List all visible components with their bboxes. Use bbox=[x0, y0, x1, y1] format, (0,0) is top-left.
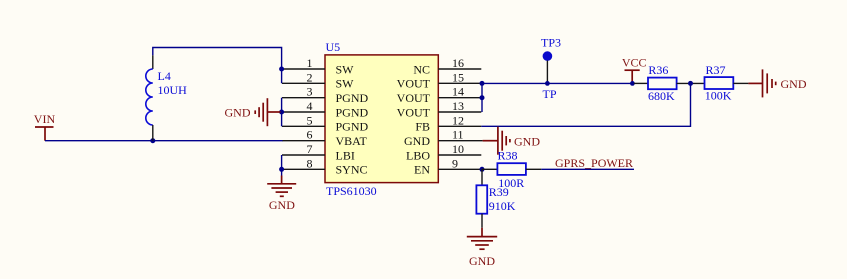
pin 16 NC bbox=[413, 56, 481, 76]
svg-text:VOUT: VOUT bbox=[397, 105, 431, 119]
svg-text:GND: GND bbox=[469, 254, 495, 268]
junction at VCC bbox=[630, 81, 635, 86]
svg-text:LBI: LBI bbox=[336, 148, 355, 162]
svg-text:PGND: PGND bbox=[336, 105, 369, 119]
svg-text:U5: U5 bbox=[326, 40, 341, 54]
svg-text:GND: GND bbox=[781, 77, 807, 91]
wire pins 7-8 to ground bbox=[281, 155, 283, 176]
junction at pin 1 bbox=[279, 67, 284, 72]
svg-text:15: 15 bbox=[452, 70, 464, 84]
svg-text:EN: EN bbox=[414, 163, 430, 177]
svg-text:NC: NC bbox=[413, 62, 430, 76]
svg-text:GND: GND bbox=[225, 106, 251, 120]
power port VCC bbox=[622, 56, 647, 84]
wire VOUT bus pins 13-15 bbox=[481, 83, 483, 112]
wire pins 3-5 PGND bus bbox=[281, 98, 283, 127]
pin 6 VBAT bbox=[282, 128, 368, 148]
svg-text:7: 7 bbox=[307, 142, 313, 156]
junction at pin 8 bbox=[279, 167, 284, 172]
pin 12 FB bbox=[415, 113, 481, 133]
pin 10 LBO bbox=[406, 142, 481, 162]
svg-text:1: 1 bbox=[307, 56, 313, 70]
svg-text:2: 2 bbox=[307, 70, 313, 84]
svg-text:680K: 680K bbox=[648, 89, 675, 103]
resistor R38 bbox=[482, 149, 541, 190]
svg-text:GND: GND bbox=[514, 135, 540, 149]
svg-text:100K: 100K bbox=[705, 89, 732, 103]
svg-text:4: 4 bbox=[307, 99, 313, 113]
svg-text:R39: R39 bbox=[489, 185, 509, 199]
svg-text:13: 13 bbox=[452, 99, 464, 113]
pin 14 VOUT bbox=[397, 85, 482, 105]
svg-text:11: 11 bbox=[452, 128, 464, 142]
svg-text:8: 8 bbox=[307, 156, 313, 170]
svg-text:R36: R36 bbox=[648, 63, 668, 77]
resistor R37 bbox=[705, 63, 749, 103]
wire R38 to GPRS_POWER net bbox=[541, 168, 634, 170]
junction between R36 and R37 bbox=[688, 81, 693, 86]
junction at pin 9 EN bbox=[480, 167, 485, 172]
svg-text:3: 3 bbox=[307, 85, 313, 99]
pin 9 EN bbox=[414, 156, 481, 176]
ground symbol below R39 bbox=[467, 228, 497, 268]
pin 2 SW bbox=[282, 70, 354, 90]
junction at pin 15 bbox=[480, 81, 485, 86]
svg-text:VOUT: VOUT bbox=[397, 91, 431, 105]
svg-text:910K: 910K bbox=[489, 199, 516, 213]
svg-text:PGND: PGND bbox=[336, 91, 369, 105]
pin 3 PGND bbox=[282, 85, 369, 105]
svg-text:TP: TP bbox=[543, 87, 557, 101]
svg-text:9: 9 bbox=[452, 156, 458, 170]
pin 4 PGND bbox=[282, 99, 369, 119]
wire FB loop (pin 12 to R36/R37 junction) bbox=[481, 83, 690, 126]
pin 13 VOUT bbox=[397, 99, 482, 119]
svg-text:VBAT: VBAT bbox=[336, 134, 368, 148]
pin 7 LBI bbox=[282, 142, 355, 162]
svg-text:GND: GND bbox=[404, 134, 430, 148]
resistor R39 bbox=[476, 169, 515, 228]
power port VIN bbox=[34, 112, 56, 141]
ground symbol right of R37 bbox=[748, 69, 806, 97]
junction at TP3 bbox=[545, 81, 550, 86]
svg-text:GND: GND bbox=[269, 198, 295, 212]
svg-text:R37: R37 bbox=[706, 63, 726, 77]
ground symbol below pin 8 bbox=[267, 176, 296, 213]
svg-text:VOUT: VOUT bbox=[397, 77, 431, 91]
svg-text:VIN: VIN bbox=[34, 112, 56, 126]
test point TP3 bbox=[541, 35, 561, 101]
svg-text:SYNC: SYNC bbox=[336, 163, 368, 177]
svg-text:PGND: PGND bbox=[336, 120, 369, 134]
svg-text:R38: R38 bbox=[498, 149, 518, 163]
svg-text:14: 14 bbox=[452, 85, 464, 99]
svg-text:L4: L4 bbox=[158, 69, 171, 83]
wire VIN to pin 6 VBAT bbox=[45, 140, 283, 142]
pin 11 GND bbox=[404, 128, 483, 148]
ground symbol at PGND pins bbox=[225, 98, 281, 126]
inductor L4 bbox=[146, 55, 187, 141]
svg-text:16: 16 bbox=[452, 56, 464, 70]
wire VOUT rail (pin 15) to R36 bbox=[482, 82, 634, 84]
svg-text:6: 6 bbox=[307, 128, 313, 142]
svg-text:SW: SW bbox=[336, 77, 355, 91]
wire L4 top to pins 1-2 bbox=[153, 48, 282, 84]
svg-text:TP3: TP3 bbox=[541, 35, 561, 49]
svg-text:10UH: 10UH bbox=[158, 83, 188, 97]
resistor R36 bbox=[634, 63, 705, 103]
svg-text:SW: SW bbox=[336, 62, 355, 76]
svg-text:5: 5 bbox=[307, 113, 313, 127]
svg-text:TPS61030: TPS61030 bbox=[326, 184, 377, 198]
svg-text:LBO: LBO bbox=[406, 148, 430, 162]
svg-text:VCC: VCC bbox=[622, 56, 647, 70]
ground symbol at pin 11 GND bbox=[483, 127, 541, 155]
junction at pin 4 bbox=[279, 110, 284, 115]
svg-text:12: 12 bbox=[452, 113, 464, 127]
junction at pin 14 bbox=[480, 95, 485, 100]
pin 5 PGND bbox=[282, 113, 369, 133]
pin 8 SYNC bbox=[282, 156, 368, 176]
junction at L4 bottom bbox=[150, 138, 155, 143]
svg-text:FB: FB bbox=[415, 120, 430, 134]
svg-text:GPRS_POWER: GPRS_POWER bbox=[555, 156, 633, 170]
op-amp U5 body (TPS61030 IC) bbox=[325, 55, 438, 183]
pin 15 VOUT bbox=[397, 70, 482, 90]
svg-text:10: 10 bbox=[452, 142, 464, 156]
pin 1 SW bbox=[282, 56, 354, 76]
